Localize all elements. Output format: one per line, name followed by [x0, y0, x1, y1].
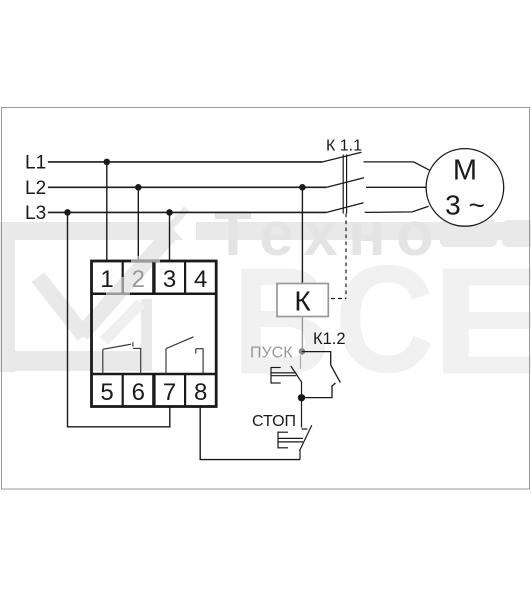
svg-text:С: С — [335, 233, 435, 404]
svg-text:6: 6 — [132, 379, 145, 406]
wire terminal 8 to stop button — [200, 407, 300, 460]
pushbutton stop (NC) — [278, 398, 312, 460]
wire L1 to terminal 1 — [106, 162, 108, 262]
junction L1 to terminal 1 — [104, 159, 111, 166]
wire L2 to terminal 2 — [137, 187, 139, 262]
contactor main contacts K1.1 — [323, 138, 364, 214]
junction L2 to terminal 2 — [135, 184, 142, 191]
wire K1.1 to motor phase 2 — [366, 186, 426, 188]
wire L3 down left side — [68, 212, 170, 426]
relay contact 7-8 (open) — [166, 337, 203, 374]
svg-text:3 ~: 3 ~ — [445, 190, 485, 221]
svg-text:M: M — [453, 155, 477, 187]
motor M 3~ — [426, 149, 504, 227]
svg-text:L3: L3 — [25, 203, 46, 224]
divider terminals 5|6 — [122, 374, 124, 407]
divider terminals 3|4 — [184, 261, 186, 294]
svg-text:7: 7 — [163, 379, 176, 406]
border frame (decorative) — [2, 108, 530, 490]
svg-text:К 1.1: К 1.1 — [326, 138, 362, 155]
relay auxiliary contact K1.2 (NO) — [302, 352, 340, 398]
coil K — [277, 284, 328, 317]
svg-text:В: В — [232, 235, 331, 406]
svg-text:1: 1 — [100, 266, 113, 293]
divider terminals 7|8 — [184, 374, 186, 407]
svg-text:4: 4 — [194, 266, 207, 293]
wire K1.1 to motor phase 1 — [364, 162, 430, 170]
wire coil K to start node (gray under watermark) — [301, 317, 303, 349]
wire K1.1 to motor phase 3 — [365, 206, 429, 212]
svg-text:ПУСК: ПУСК — [250, 345, 293, 362]
wire L1 line — [48, 161, 323, 163]
svg-text:2: 2 — [132, 266, 145, 293]
svg-text:L2: L2 — [25, 178, 46, 199]
svg-text:L1: L1 — [25, 153, 46, 174]
divider terminals 1|2 — [122, 261, 124, 294]
divider terminals 2|3 — [152, 261, 155, 294]
watermark (decorative) — [0, 200, 531, 407]
wire L2 line — [48, 186, 327, 188]
junction L2 to coil K — [299, 184, 306, 191]
terminal row 1-4 bottom edge — [92, 293, 217, 296]
relay contact 5-6 (closed) — [103, 342, 141, 374]
node stop junction — [298, 394, 305, 401]
wire L2 to coil K — [301, 187, 303, 284]
relay device terminal block — [92, 256, 217, 407]
pushbutton start (NO) — [271, 355, 302, 398]
junction L3 to bottom wire — [64, 209, 71, 216]
wire K1.1 mechanical link (dashed) — [345, 214, 347, 299]
svg-text:3: 3 — [163, 266, 176, 293]
svg-text:К: К — [294, 286, 311, 317]
svg-text:К1.2: К1.2 — [313, 330, 346, 348]
wire L3 to terminal 3 — [169, 212, 171, 262]
svg-text:8: 8 — [194, 379, 207, 406]
device outline — [92, 261, 217, 407]
terminal row 5-8 top edge — [92, 373, 217, 376]
watermark-grayed top border segment — [131, 260, 160, 263]
junction L3 to terminal 3 — [166, 209, 173, 216]
node start junction — [299, 348, 306, 355]
divider terminals 6|7 — [152, 374, 155, 407]
svg-text:5: 5 — [100, 379, 113, 406]
wire L3 line — [48, 211, 327, 213]
svg-text:СТОП: СТОП — [252, 413, 296, 430]
svg-text:Е: Е — [431, 236, 531, 407]
